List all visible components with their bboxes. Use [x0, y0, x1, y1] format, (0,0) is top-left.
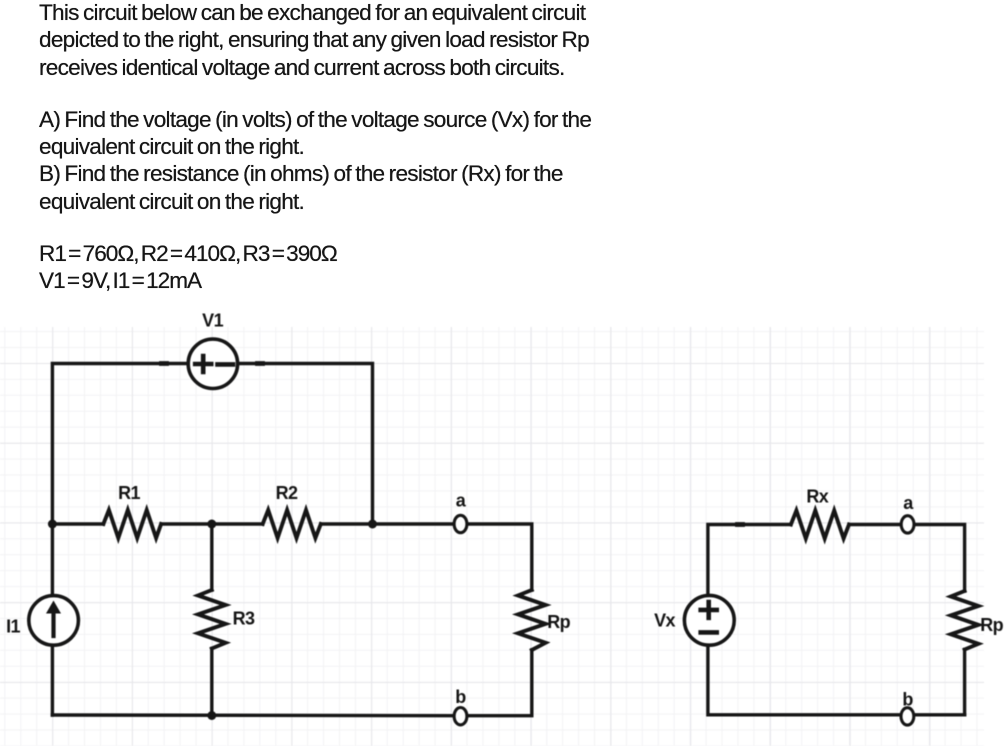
- svg-text:R2: R2: [276, 483, 298, 503]
- svg-text:Vx: Vx: [654, 611, 675, 631]
- svg-text:Rp: Rp: [980, 615, 1003, 635]
- svg-text:V1: V1: [202, 311, 223, 331]
- svg-text:Rp: Rp: [547, 612, 570, 632]
- svg-text:R3: R3: [233, 609, 255, 629]
- svg-text:R1: R1: [118, 483, 140, 503]
- svg-text:a: a: [903, 493, 914, 513]
- svg-text:b: b: [902, 690, 913, 710]
- svg-text:b: b: [455, 687, 466, 707]
- svg-text:Rx: Rx: [806, 487, 828, 507]
- svg-text:I1: I1: [6, 616, 20, 636]
- svg-text:a: a: [456, 491, 467, 511]
